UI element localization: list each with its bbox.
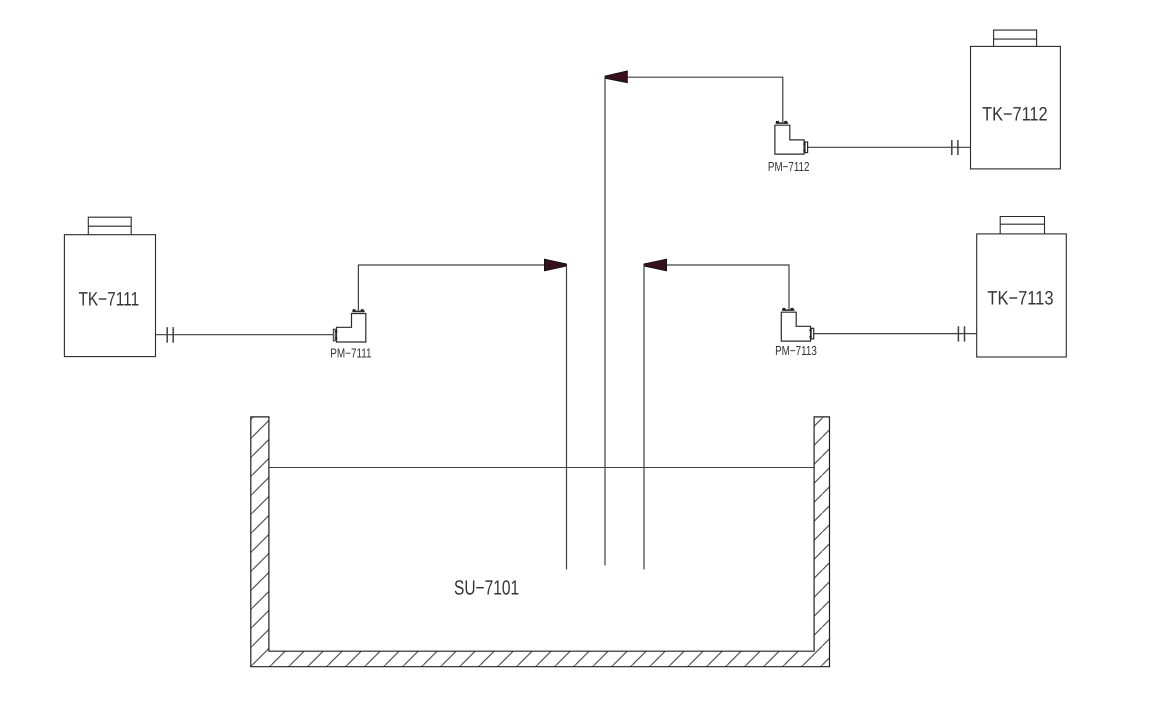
tank TK-7112 (971, 30, 1061, 169)
arrow into dip pipe 3 (points left) (644, 259, 667, 271)
wire: TK-7113 outlet pipe to PM-7113 inlet (814, 333, 977, 335)
tank TK-7113 (977, 217, 1067, 358)
flange ticks on TK-7112 pipe (952, 140, 958, 155)
liquid level line in basin (270, 467, 814, 469)
svg-text:PM−7112: PM−7112 (768, 159, 810, 174)
wire: TK-7111 outlet pipe to PM-7111 inlet (156, 334, 334, 336)
svg-text:PM−7111: PM−7111 (330, 345, 371, 360)
wire: dip pipe 2 down into basin (604, 77, 606, 565)
wire: dip pipe 1 down into basin (566, 265, 568, 570)
flange ticks on TK-7111 pipe (167, 327, 173, 343)
flange ticks on TK-7113 pipe (958, 326, 964, 341)
pump PM-7112 (775, 121, 808, 154)
wire: dip pipe 3 down into basin (643, 265, 645, 570)
wire: TK-7112 outlet pipe to PM-7112 inlet (808, 146, 971, 148)
wire: PM-7113 outlet riser to middle-right run (663, 265, 789, 309)
arrow into dip pipe 1 (points right) (545, 259, 567, 271)
svg-text:TK−7113: TK−7113 (987, 288, 1053, 310)
svg-text:TK−7111: TK−7111 (79, 289, 140, 311)
wire: PM-7112 outlet riser to top run (624, 77, 783, 122)
pump PM-7111 (333, 309, 366, 342)
basin SU-7101 walls (hatched U-shape) (251, 417, 830, 667)
svg-text:SU−7101: SU−7101 (454, 577, 519, 600)
pump PM-7113 (781, 308, 813, 341)
wire: PM-7111 outlet riser (358, 265, 548, 310)
tank TK-7111 (64, 217, 155, 356)
svg-text:TK−7112: TK−7112 (982, 104, 1047, 126)
arrow into dip pipe 2 (points left) (605, 71, 627, 83)
svg-text:PM−7113: PM−7113 (775, 343, 817, 358)
